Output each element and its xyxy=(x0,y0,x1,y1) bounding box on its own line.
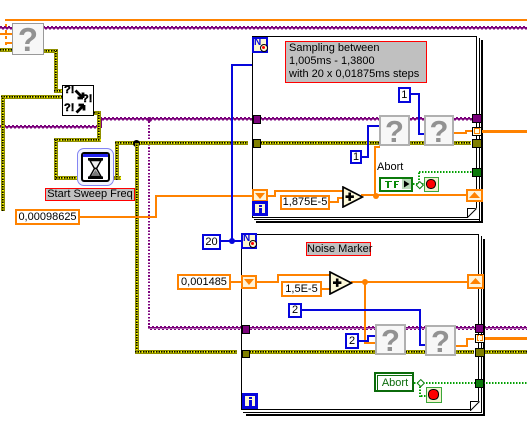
constant 1,875E-5 xyxy=(280,195,330,210)
tunnel: indexing output loop1 xyxy=(472,127,482,136)
shift register down loop1 xyxy=(252,189,268,202)
boolean label Abort loop2 (boxed) xyxy=(374,372,414,392)
wire: error second input from left L xyxy=(1,95,62,99)
wire: thick orange array out to right edge lower xyxy=(484,337,527,340)
wire: orange branch up to U1 xyxy=(374,146,376,196)
shift register up loop1 xyxy=(466,189,483,202)
wire: error merge icon out xyxy=(94,111,101,115)
tunnel: error left loop1 xyxy=(253,139,262,148)
wire: purple jog vertical xyxy=(100,119,102,128)
i terminal loop1 xyxy=(252,201,268,216)
wire: purple from left edge y126 xyxy=(0,125,102,129)
wire: error across upper loop xyxy=(258,141,471,145)
wire: orange from const 0,00098625 xyxy=(80,216,157,218)
wire: purple from U0 to right edge xyxy=(43,26,527,30)
wire: purple horizontal y327 to right edge xyxy=(148,326,527,330)
wire: blue const 2 lower to U3 xyxy=(358,340,369,342)
merge errors icon xyxy=(62,85,94,116)
wire: blue const 1 top to U2 xyxy=(409,93,420,95)
wire: error vertical branch to lower loop xyxy=(135,143,139,354)
wire: error from left edge into U0 xyxy=(0,48,13,52)
constant 20 xyxy=(202,234,221,250)
constant 1 upper xyxy=(398,87,411,103)
wire: orange top long run xyxy=(6,19,527,21)
tunnel: green right loop1 xyxy=(472,168,482,177)
wire: purple vertical branch xyxy=(148,120,150,328)
wire: blue const 2 upper to U4 xyxy=(301,309,421,311)
label: Start Sweep Freq xyxy=(45,188,135,201)
wire: orange const 1,875E-5 to add xyxy=(330,201,339,203)
node: error junction dot xyxy=(133,140,140,147)
wire: orange dashed vertical stub left xyxy=(5,19,7,45)
for-loop 1 border xyxy=(252,36,477,218)
add function loop2 xyxy=(329,271,353,295)
wire: thick orange array out to right edge xyxy=(481,130,527,133)
tunnel: purple right loop2 xyxy=(475,324,485,333)
constant 1 lower xyxy=(350,150,362,164)
for-loop 1 corner fold xyxy=(467,208,478,219)
wire: orange stub into U0 upper xyxy=(0,33,13,35)
wire: orange U4 out to index tunnel xyxy=(456,345,468,347)
node: green diamond junction loop2 xyxy=(417,379,425,387)
tunnel: indexing output loop2 xyxy=(475,334,485,344)
node: orange junction dot loop1 xyxy=(373,193,379,199)
node: orange junction dot loop2 xyxy=(362,279,368,285)
wire: orange stub into U0 lower xyxy=(5,42,14,44)
label: Noise Marker xyxy=(306,242,371,256)
wire: green dotted TF to stop button xyxy=(413,183,425,185)
node: blue junction dot xyxy=(229,238,235,244)
wire: orange shift reg out to add xyxy=(268,195,276,197)
constant 2 lower xyxy=(345,333,359,349)
node: green diamond junction loop1 xyxy=(416,181,424,189)
tunnel: error left loop2 xyxy=(242,350,251,358)
label: Sampling between ... xyxy=(285,41,427,83)
tunnel: green right loop2 xyxy=(475,379,485,388)
subVI U0 missing ? top-left xyxy=(12,23,44,55)
shift register down loop2 xyxy=(241,275,257,289)
subVI U1 ? loop1 xyxy=(379,115,410,146)
wire: error U0 out right then down xyxy=(43,49,58,53)
N terminal loop1 xyxy=(252,37,268,53)
i terminal loop2 xyxy=(242,393,258,409)
constant 0,001485 xyxy=(177,274,231,290)
wire: green dotted up to tunnel xyxy=(418,172,420,183)
tunnel: error right loop2 xyxy=(475,348,485,357)
wire: error exit right edge lower xyxy=(484,350,527,354)
stop button loop1 xyxy=(424,177,439,192)
add function loop1 xyxy=(342,186,364,208)
constant 1,5E-5 xyxy=(281,281,322,297)
constant 0,00098625 xyxy=(15,209,80,225)
wire: orange U2 out to index tunnel xyxy=(454,132,467,134)
for-loop 2 border xyxy=(241,234,479,410)
boolean terminal TF loop1 xyxy=(379,177,413,192)
shift register up loop2 xyxy=(467,274,484,289)
wire: error hourglass out xyxy=(113,176,121,180)
wire: green dotted down to stop button xyxy=(419,386,421,397)
wire: orange shift reg out to add xyxy=(257,281,279,283)
wire: purple left into U0 xyxy=(0,26,13,30)
N terminal loop2 xyxy=(241,233,257,249)
wire: orange add out to shift reg right xyxy=(351,281,467,283)
subVI U3 ? loop2 xyxy=(375,324,406,355)
wire: error across lower loop xyxy=(247,350,474,354)
label: Abort (loop1, plain) xyxy=(377,161,411,173)
wire: orange add out to shift reg right xyxy=(361,194,467,196)
wire: purple main horizontal y117 xyxy=(100,117,472,121)
wire: green dotted abort to diamond and right edge xyxy=(414,382,423,384)
wire: orange const 1,5E-5 to add xyxy=(322,288,332,290)
wire: blue const 1 lower to U1 xyxy=(361,156,369,158)
wire: blue from 20 up and into upper loop border xyxy=(221,240,242,242)
node: purple junction dot xyxy=(147,117,152,122)
tunnel: purple right loop1 xyxy=(472,114,482,123)
tunnel: purple left loop2 xyxy=(242,325,251,334)
tunnel: purple left loop1 xyxy=(253,115,262,124)
subVI U4 ? loop2 xyxy=(425,325,456,356)
wire: orange const 0,001485 in xyxy=(231,281,243,283)
tunnel: error right loop1 xyxy=(472,139,482,148)
for-loop 2 corner fold xyxy=(470,401,481,412)
stop button loop2 xyxy=(426,387,442,403)
wire: orange branch down to U3 xyxy=(364,283,366,344)
subVI U2 ? loop1 xyxy=(424,115,454,146)
constant 2 upper xyxy=(288,303,302,318)
express VI: time delay (hourglass) xyxy=(77,148,114,186)
